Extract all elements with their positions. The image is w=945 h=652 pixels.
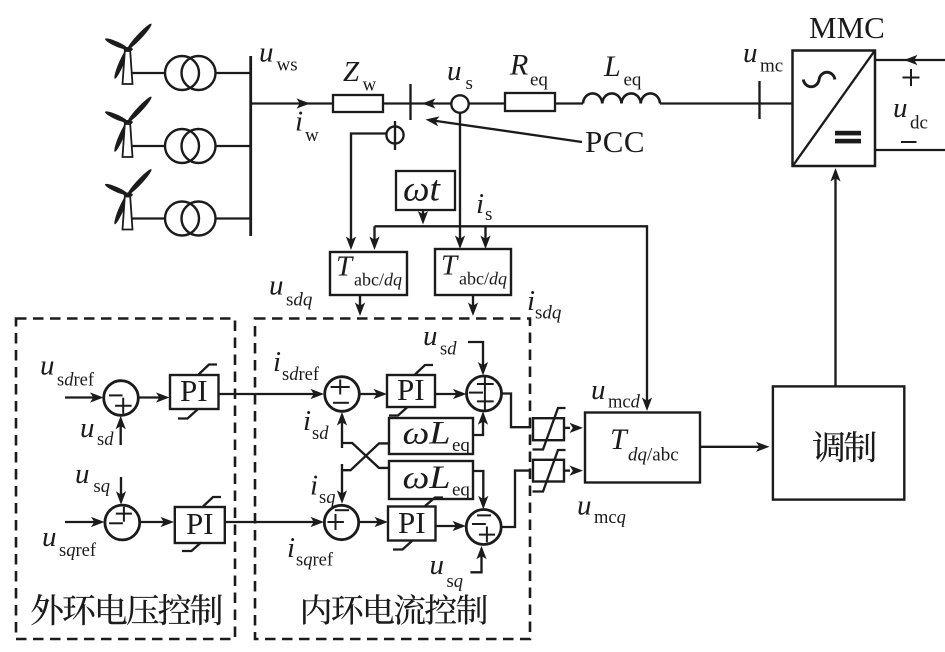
svg-text:sdq: sdq (535, 303, 562, 324)
svg-text:sd: sd (312, 424, 329, 444)
wire DC positive with arrow into MMC (875, 59, 945, 61)
summing junction 2 (inner d output) (467, 376, 502, 411)
svg-text:eq: eq (530, 70, 548, 91)
controller PI1 (box with limiter marks) (170, 375, 219, 409)
node u_s (circle) (451, 95, 468, 112)
svg-text:sd: sd (97, 430, 114, 450)
svg-text:mcq: mcq (594, 508, 626, 528)
svg-text:abc/dq: abc/dq (459, 269, 507, 289)
svg-text:u: u (577, 490, 592, 522)
wire transformer 1 to bus (216, 72, 251, 74)
summing junction 1 (inner d) (325, 377, 360, 412)
svg-text:L: L (603, 50, 621, 83)
svg-text:s: s (466, 73, 473, 94)
inductor Leq (4 humps) (583, 93, 660, 103)
wire omega-t distribution line (375, 226, 648, 407)
svg-text:u: u (743, 37, 758, 69)
PCC pointer line with arrow (433, 121, 582, 143)
wire junction A to PI1 (138, 396, 166, 398)
MMC DC equals symbol (835, 131, 861, 136)
svg-text:u: u (80, 412, 95, 444)
svg-text:ωL: ωL (403, 416, 451, 452)
controller PI2 (box with limiter marks) (175, 507, 225, 543)
wire omega-Leq1 up into junction 2 (473, 415, 483, 436)
controller PI4 (box with limiter marks) (388, 507, 436, 541)
transformer T2 (two overlapping circles) (165, 129, 199, 163)
label outer loop (Chinese): 外环电压控制 (31, 594, 63, 625)
wire omega-Leq2 down into junction 4 (473, 471, 483, 506)
wind turbine WT3 (104, 167, 153, 229)
svg-text:w: w (305, 125, 319, 146)
wire omega-t to distribution line (422, 210, 424, 219)
input arrow u_sdref (65, 396, 100, 398)
block omega-Leq 1 (389, 418, 473, 454)
svg-text:i: i (527, 285, 535, 317)
minus sign (901, 141, 917, 143)
svg-text:abc/dq: abc/dq (354, 270, 402, 290)
wire modulation to MMC with arrow (834, 171, 836, 386)
svg-text:Z: Z (343, 56, 360, 88)
output arrow i_sdq (472, 295, 474, 313)
svg-text:sq: sq (447, 572, 463, 592)
wire DC negative (875, 149, 945, 151)
output arrow u_sdq (359, 295, 361, 313)
branch arrow into Tabc/dq1 (373, 226, 375, 246)
svg-text:i: i (303, 405, 311, 437)
input arrow u_sqref (65, 521, 101, 523)
hook wire u_sd into junction 2 (468, 342, 483, 372)
label inner loop (Chinese): 内环电流控制 (303, 594, 330, 624)
arrow omega-t into Tdq/abc (642, 398, 652, 412)
bus bar u_ws (249, 56, 252, 236)
impedance Zw (box) (333, 95, 383, 112)
wire turbine 2 to transformer (132, 145, 166, 147)
svg-text:u: u (430, 549, 445, 581)
wire PI1 to inner loop (i_sdref) (219, 393, 321, 395)
svg-text:u: u (75, 458, 90, 490)
svg-text:PI: PI (180, 373, 208, 408)
summing junction A (outer d) (104, 381, 139, 416)
limiter 2 (saturation block) (533, 460, 564, 482)
summing junction 3 (inner q) (324, 505, 358, 539)
wire u_s sense down to Tabc/dq2 (459, 113, 461, 246)
arrow limiter2 to Tdq/abc (564, 469, 570, 471)
u_mc tick mark (758, 81, 760, 119)
svg-text:ws: ws (277, 55, 298, 76)
converter MMC (box) (793, 51, 876, 167)
wire junction 4 to limiter 2 (501, 471, 531, 527)
MMC diagonal (793, 51, 875, 166)
wire PI2 to inner loop (i_sqref) (225, 521, 321, 523)
svg-text:sdq: sdq (286, 290, 313, 311)
wire Req to Leq (555, 102, 583, 104)
limiter 1 (saturation block) (533, 418, 564, 440)
svg-text:PI: PI (186, 506, 214, 541)
block omega-Leq 2 (389, 461, 473, 499)
wire turbine 3 to transformer (132, 217, 166, 219)
plus sign (903, 77, 920, 79)
svg-text:u: u (269, 270, 284, 302)
svg-text:i: i (476, 188, 484, 220)
svg-text:i: i (310, 470, 318, 502)
arrow u_sd into junction A (120, 419, 122, 445)
block omega-t (PLL) (396, 171, 455, 210)
svg-text:sq: sq (319, 488, 335, 508)
wind turbine WT1 (104, 22, 153, 84)
svg-text:sdref: sdref (57, 371, 95, 391)
svg-text:i: i (287, 532, 295, 564)
wire transformer 3 to bus (216, 217, 251, 219)
wire Zw to u_s node, PCC tick and left arrow (383, 102, 451, 104)
summing junction B (outer q) (105, 505, 140, 540)
wire PI4 to junction 4 (436, 525, 463, 527)
block Tdq/abc (585, 413, 700, 483)
wire bus to Zw with arrow i_w (251, 102, 333, 104)
svg-text:u: u (591, 374, 606, 406)
transformer T1 (two overlapping circles) (165, 56, 199, 90)
svg-text:ωt: ωt (403, 169, 441, 209)
svg-text:T: T (610, 423, 629, 456)
dashed box: outer voltage control (16, 319, 235, 640)
arrow i_sq down into junction 3 and cross branch (341, 464, 343, 501)
svg-text:sdref: sdref (282, 365, 320, 385)
wind turbine WT2 (104, 95, 153, 157)
svg-text:i: i (273, 346, 281, 378)
resistor Req (box) (505, 93, 555, 111)
wire junction 2 to limiter 1 (502, 394, 532, 428)
svg-text:eq: eq (452, 435, 470, 456)
svg-text:T: T (336, 251, 354, 283)
wire turbine 1 to transformer (132, 72, 166, 74)
hook wire u_sq into junction 4 (470, 549, 481, 573)
svg-text:PI: PI (397, 372, 425, 407)
wire Tdq/abc to modulation (700, 446, 766, 448)
transformer T3 (two overlapping circles) (165, 202, 199, 236)
svg-text:u: u (259, 37, 274, 69)
svg-text:u: u (893, 92, 908, 124)
svg-text:sqref: sqref (296, 551, 334, 571)
svg-text:dc: dc (910, 113, 928, 134)
wire u_s to Req (469, 102, 505, 104)
svg-text:sd: sd (440, 340, 457, 360)
arrow i_sd into junction 1 and cross branch (341, 415, 343, 448)
svg-text:PCC: PCC (585, 124, 645, 159)
MMC AC tilde symbol (803, 72, 835, 86)
block Tabc/dq 2 (435, 249, 511, 295)
block Tabc/dq 1 (330, 252, 407, 295)
wire phi sensor to Tabc/dq1 (351, 134, 386, 247)
wire transformer 2 to bus (216, 145, 251, 147)
svg-text:PI: PI (398, 505, 426, 540)
svg-text:sq: sq (94, 477, 110, 497)
wire PI3 to junction 2 (435, 393, 463, 395)
svg-text:w: w (363, 75, 377, 96)
svg-text:s: s (485, 204, 492, 225)
svg-text:i: i (295, 106, 303, 138)
svg-text:mc: mc (760, 56, 783, 77)
svg-text:dq/abc: dq/abc (628, 445, 679, 466)
phase sensor phi (circle with vertical line) (386, 126, 403, 143)
controller PI3 (box with limiter marks) (387, 375, 435, 407)
svg-text:mcd: mcd (608, 393, 641, 413)
dashed box: inner current control (255, 319, 530, 640)
svg-text:T: T (441, 250, 459, 282)
arrow u_sq into junction B (120, 477, 122, 502)
svg-text:u: u (423, 320, 438, 352)
svg-text:ωL: ωL (403, 460, 451, 496)
summing junction 4 (inner q output) (466, 510, 501, 545)
wire Leq to MMC (660, 102, 793, 104)
svg-text:eq: eq (624, 70, 642, 91)
svg-text:R: R (509, 49, 528, 82)
svg-text:eq: eq (452, 480, 470, 501)
wire junction 1 to PI3 (359, 393, 383, 395)
PCC tick mark (409, 84, 411, 120)
block modulation (调制) (773, 386, 904, 499)
arrow limiter1 to Tdq/abc (564, 427, 570, 429)
svg-text:MMC: MMC (809, 10, 885, 45)
wire junction 3 to PI4 (359, 521, 385, 523)
svg-text:sqref: sqref (59, 541, 97, 561)
svg-text:u: u (42, 521, 57, 553)
svg-text:u: u (40, 350, 55, 382)
branch arrow into Tabc/dq2 (484, 226, 486, 245)
wire junction B to PI2 (140, 521, 171, 523)
svg-text:u: u (447, 55, 462, 87)
